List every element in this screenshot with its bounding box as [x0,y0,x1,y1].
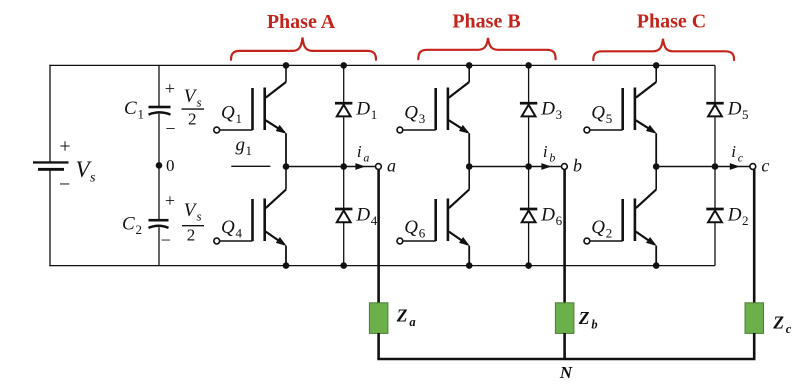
battery minus sign [59,174,70,196]
label node c [761,155,769,175]
Phase C brace [593,39,734,60]
node a [376,164,382,170]
label node b [573,155,582,175]
svg-text:3: 3 [556,107,563,122]
battery plus sign [59,136,70,158]
junction dots phase a bottom rail [283,262,347,269]
svg-text:s: s [90,171,96,186]
diode D3 [520,102,537,117]
wire diode branch D3/D6 [528,65,530,265]
svg-text:Q: Q [591,217,605,238]
svg-text:D: D [355,99,370,120]
label node a [387,155,396,175]
current arrow i_b [541,163,551,170]
label i_a [357,142,370,165]
wire load Za upper [377,169,380,303]
wire load Za lower [377,333,380,359]
label C1 [124,98,144,122]
wire top DC rail [49,64,715,66]
capacitor C1 [149,106,171,115]
svg-text:5: 5 [742,107,749,122]
wire neutral rail N [377,358,755,360]
svg-text:s: s [197,95,202,110]
transistor Q5 (IGBT upper) [621,65,656,166]
wire left source lead upper [49,65,51,162]
label 0 [166,156,175,175]
junction dots phase b bottom rail [466,262,532,269]
svg-text:1: 1 [236,111,243,126]
gate terminal Q2 [584,238,623,244]
wire diode branch D1/D4 [343,65,345,265]
label Zb [578,308,598,332]
svg-text:C: C [122,214,135,235]
wire capacitor branch middle [158,114,160,219]
gate terminal Q5 [584,127,623,133]
gate terminal Q4 [214,238,253,244]
Phase C title [637,11,706,33]
gate terminal Q3 [397,127,436,133]
label i_b [543,142,556,165]
C2 plus sign [165,191,175,211]
svg-text:6: 6 [419,226,426,241]
svg-text:D: D [540,99,555,120]
label Q6 [404,217,426,241]
svg-text:Q: Q [404,217,418,238]
svg-text:Q: Q [591,102,605,123]
junction dots phase a mid [283,163,347,170]
svg-text:−: − [59,174,70,196]
gate terminal Q1 [214,127,253,133]
C1 plus sign [165,79,175,99]
svg-text:b: b [591,318,597,332]
svg-text:−: − [161,230,171,250]
current arrow i_c [730,163,740,170]
svg-text:2: 2 [136,222,143,237]
diode D5 [706,102,723,117]
label D2 [727,205,749,229]
svg-text:Z: Z [578,308,590,328]
svg-text:b: b [573,155,582,175]
svg-text:c: c [786,322,792,336]
svg-text:i: i [357,142,362,161]
label Vs [76,157,97,186]
diode D2 [706,208,723,223]
svg-text:−: − [165,119,175,139]
Phase B title [452,10,520,32]
svg-text:s: s [197,209,202,224]
transistor Q4 (IGBT lower) [251,167,286,266]
svg-text:c: c [738,151,744,165]
value Vs/2 lower [182,200,204,244]
label N [559,363,573,382]
label Q5 [591,102,612,126]
svg-text:2: 2 [187,225,196,244]
label D3 [540,99,562,123]
wire load Zb upper [563,169,566,303]
label g1 [236,135,253,159]
svg-text:Q: Q [221,102,235,123]
junction dots phase c bottom rail [653,262,660,269]
svg-text:+: + [165,191,175,211]
wire load Zb lower [563,333,566,359]
svg-text:+: + [59,136,70,158]
transistor Q1 (IGBT upper) [251,65,286,166]
node c [750,164,756,170]
svg-text:a: a [409,315,415,329]
label Q3 [404,102,425,126]
battery Vs [33,161,69,170]
wire bottom DC rail [49,265,715,267]
capacitor C2 [149,219,169,228]
node b [562,164,568,170]
wire phase a output [286,166,376,168]
svg-text:a: a [363,151,369,165]
svg-text:4: 4 [236,226,243,241]
C1 minus sign [165,119,175,139]
svg-text:C: C [124,98,137,119]
Phase A brace [231,38,376,60]
svg-text:2: 2 [188,110,197,129]
svg-text:1: 1 [138,107,145,122]
svg-text:+: + [165,79,175,99]
svg-text:2: 2 [606,226,613,241]
svg-text:D: D [355,205,370,226]
node 0 [156,162,163,169]
svg-text:1: 1 [246,143,253,158]
svg-text:Z: Z [772,312,784,332]
wire load Zc lower [753,333,756,359]
label D4 [355,205,377,229]
Phase A title [267,11,336,33]
impedance Za [369,303,388,334]
svg-text:0: 0 [166,156,175,175]
svg-text:N: N [559,363,573,382]
impedance Zb [555,303,574,334]
svg-text:4: 4 [371,213,378,228]
label D5 [727,99,749,123]
svg-text:2: 2 [742,213,749,228]
label Q4 [221,217,243,241]
transistor Q6 (IGBT lower) [434,167,469,266]
svg-text:Q: Q [221,217,235,238]
label i_c [731,142,744,165]
wire diode branch D5/D2 [714,65,716,265]
transistor Q2 (IGBT lower) [621,167,656,266]
svg-text:Q: Q [404,102,418,123]
wire capacitor branch upper [158,65,160,106]
diode D1 [335,102,352,117]
C2 minus sign [161,230,171,250]
svg-text:D: D [727,99,742,120]
label Zc [772,312,792,336]
svg-text:Phase A: Phase A [267,11,336,33]
junction dots phase a top rail [283,62,347,69]
svg-text:3: 3 [419,111,426,126]
label Q1 [221,102,242,126]
transistor Q3 (IGBT upper) [434,65,469,166]
label D1 [355,99,377,123]
wire load Zc upper [753,169,756,303]
junction dots phase b mid [466,163,532,170]
wire capacitor branch lower [158,227,160,265]
label C2 [122,214,142,238]
wire phase c output [656,166,750,168]
svg-text:Phase C: Phase C [637,11,706,33]
svg-text:5: 5 [606,111,613,126]
label Q2 [591,217,612,241]
current arrow i_a [355,163,365,170]
gate signal line g1 [231,165,270,167]
junction dots phase c top rail [653,62,660,69]
svg-text:1: 1 [371,107,378,122]
value Vs/2 upper [182,86,205,129]
junction dots phase c mid [653,163,718,170]
diode D4 [335,208,352,223]
svg-text:g: g [236,135,246,156]
Phase B brace [418,38,555,59]
label Za [396,305,416,329]
svg-text:D: D [540,205,555,226]
svg-text:i: i [543,142,548,161]
svg-text:6: 6 [556,213,563,228]
label D6 [540,205,562,229]
svg-text:i: i [731,142,736,161]
junction dots phase b top rail [466,62,532,69]
svg-text:b: b [549,151,555,165]
gate terminal Q6 [397,238,436,244]
svg-text:Z: Z [396,305,408,325]
wire left source lead lower [49,170,51,266]
svg-text:a: a [387,155,396,175]
svg-text:Phase B: Phase B [452,10,520,32]
svg-text:c: c [761,155,769,175]
impedance Zc [745,303,764,334]
diode D6 [520,208,537,223]
svg-text:D: D [727,205,742,226]
wire phase b output [469,166,561,168]
